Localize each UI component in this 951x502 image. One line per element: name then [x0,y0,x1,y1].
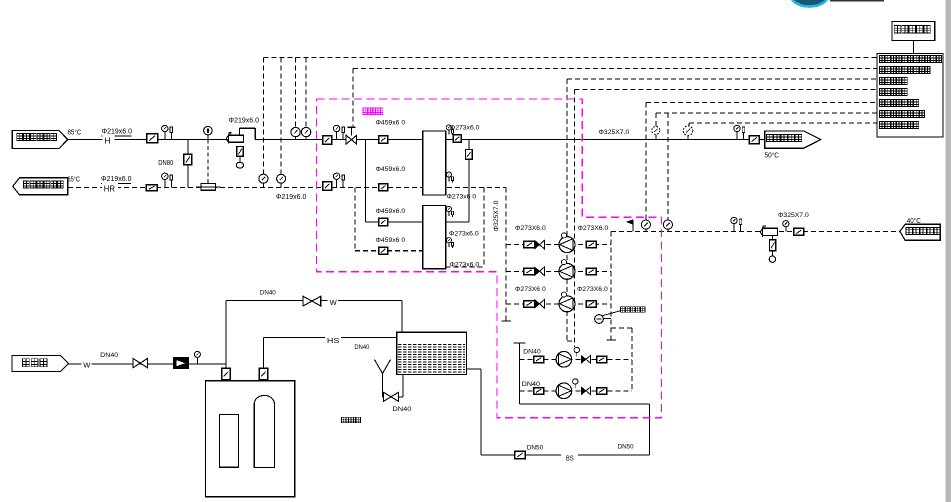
wire: makeup row 1 dashed [520,358,633,360]
softener brine tank [220,415,239,468]
wire: pump row 3 dashed [506,303,611,305]
valve V21 makeup inlet [534,356,544,362]
gauge P2 primary supply [301,127,310,136]
svg-text:Φ273x6.0: Φ273x6.0 [449,231,479,238]
label ctrl row 3 循环泵变频 [880,78,885,85]
label 二级网供水 [767,134,773,141]
drain circle M2 [769,256,775,262]
wire: HX2 secondary outlet [446,221,469,223]
valve V9 HX2 supply [379,218,388,225]
gauge P7 tap [194,351,200,357]
sensor S3 softener right [259,368,267,379]
signal row3 wire [567,78,877,80]
valve V1 supply [147,134,158,143]
svg-text:DN50: DN50 [527,444,544,451]
valve V20 secondary return [794,228,804,235]
valve V26 W line [303,296,321,306]
wire: HX2 supply branch [365,221,423,223]
wire: HS line [264,336,397,338]
node: secondary supply arrow 50C [765,131,821,148]
wire: compensator drop [913,40,915,53]
svg-text:Φ325X7.0: Φ325X7.0 [493,200,500,231]
thermo T1 supply [164,132,166,140]
svg-text:DN40: DN40 [523,349,541,356]
flow meter M2 return [761,229,763,235]
svg-text:85°C: 85°C [68,128,82,137]
valve V4 under meter [237,147,244,157]
thermo T8 secondary supply [736,132,738,140]
valve V27 drain [384,392,399,401]
valve V2 return [146,185,157,191]
thermo T10 secondary return [733,224,735,232]
svg-text:Φ459x6.0: Φ459x6.0 [376,166,406,173]
svg-text:HS: HS [327,336,340,345]
softener cabinet [206,381,295,497]
hx thermo HX2 bottom right [446,238,451,243]
wire: pump suction manifold dashed [505,187,507,321]
valve V19 under meter [770,240,776,251]
wire: drain stem [239,156,241,162]
check valve CK1 [535,240,540,248]
wire: BS bottom run [481,454,649,456]
relief solenoid valve [595,315,604,324]
svg-text:DN80: DN80 [158,160,173,167]
svg-text:HR: HR [104,184,115,194]
pump MP1 makeup [556,352,572,368]
signal row7 wire [689,122,877,124]
valve V17 pump row 3 outlet [586,301,596,308]
label 换热机组 magenta [363,108,368,115]
valve V3 DN80 bypass [184,154,192,165]
heat exchanger HX1 [423,131,446,195]
wire: secondary return dashed [611,231,900,233]
wire: BS riser right [648,404,650,455]
drain circle [236,162,243,168]
gauge P4 secondary supply [683,126,693,136]
label ctrl row 5 二级网回水压力 [880,100,885,107]
svg-text:Φ459x6.0: Φ459x6.0 [376,208,406,215]
valve V5 supply [323,136,332,144]
wire: tank drain [402,374,404,396]
check valve CK2 [535,267,540,275]
control valve CV1 electric [346,135,357,144]
softener resin tank [254,395,274,467]
label ctrl row 1 一级网供回水温度、压力 [880,56,885,63]
wire: primary supply main line H [68,139,228,141]
wire: tap water line [68,363,226,365]
valve V6 return [323,182,332,190]
svg-text:40°C: 40°C [907,217,921,225]
svg-text:DN40: DN40 [100,352,118,359]
signal row6 wire [656,112,877,114]
thermo T6 return [336,180,338,188]
hx thermo HX1 bottom right [446,172,451,177]
magenta package boundary [317,99,662,418]
svg-text:DN40: DN40 [354,344,369,351]
wire: tank outlet [467,368,481,370]
label ctrl row 4 补水泵控制 [880,89,885,96]
valve V22 makeup outlet [597,356,607,362]
wire: meter jog over [239,128,241,135]
svg-text:Φ273X6 0: Φ273X6 0 [515,286,546,293]
gauge MP2 [573,379,578,384]
svg-text:Φ219x6.0: Φ219x6.0 [229,118,260,125]
svg-text:Φ219x6.0: Φ219x6.0 [276,194,307,201]
valve V8 HX1 return [379,184,388,191]
signal row1 drops [262,57,264,174]
weather compensator box [892,22,935,41]
node: secondary return arrow 40C [900,224,940,240]
svg-text:50°C: 50°C [765,151,780,160]
valve V23 makeup inlet [534,388,544,394]
svg-text:H: H [105,136,111,146]
valve V28 tap [133,358,148,367]
valve V14 pump row 2 inlet [524,268,535,275]
signal row5 wire [646,102,877,104]
gauge P5 secondary return [641,220,650,229]
label 自来水 [23,359,30,367]
wire: HX1 bottom to suction header dashed [447,186,506,188]
hx thermo HX1 top right [446,125,451,130]
wire: BS horizontal top [520,403,650,405]
svg-text:W: W [83,361,91,370]
pipe cap return manifold [606,339,616,341]
check valve CK3 [535,300,540,308]
node: primary supply arrow 85C [12,131,68,149]
valve V13 pump row 1 outlet [586,241,596,248]
wire: W fill line [226,300,402,302]
wire: M2 drain stem [771,236,773,240]
check valve MCK2 [581,387,586,395]
valve V25 BS line [515,451,525,458]
valve V16 pump row 3 inlet [524,301,535,308]
hx thermo HX2 top right [446,206,451,211]
svg-text:Φ273x6.0: Φ273x6.0 [450,262,480,269]
wire: pump row 1 dashed [506,244,611,246]
sensor S1 on riser [466,150,473,160]
pump P3 circulating [559,296,575,312]
svg-text:Φ273X6.0: Φ273X6.0 [577,286,608,293]
svg-text:Φ273x6.0: Φ273x6.0 [450,124,480,131]
wire: makeup row 2 dashed [520,390,633,392]
wire: return manifold vertical dashed [354,187,356,250]
gauge T9 secondary return [663,220,672,229]
label ctrl row 6 二级网供回水温度 [880,111,885,118]
wire: makeup manifold [519,343,521,404]
svg-text:Φ273x6 0: Φ273x6 0 [447,194,477,201]
heat exchanger HX2 [423,206,446,269]
svg-text:DN50: DN50 [618,444,634,451]
svg-text:DN40: DN40 [392,406,411,413]
label 气候补偿器 [894,26,900,33]
thermo T2 return [164,180,166,188]
top dark banner bar [830,0,884,2]
pump P1 circulating [559,237,575,253]
valve V18 secondary supply [749,136,759,144]
svg-text:Φ325X7.0: Φ325X7.0 [599,129,630,136]
valve V15 pump row 2 outlet [586,268,596,275]
label HS [325,333,341,343]
signal row2 wire [353,67,877,69]
valve V7 HX1 supply [379,136,388,143]
svg-text:Φ273X6.0: Φ273X6.0 [515,225,546,232]
svg-text:Φ219x6.0: Φ219x6.0 [101,176,132,183]
sensor S2 softener left [222,368,230,379]
gauge T4 primary return [259,174,268,183]
svg-text:DN40: DN40 [522,381,541,388]
label H [103,135,115,144]
wire: return manifold dashed [610,232,612,341]
signal row4 wire [575,89,878,91]
wire: HX2 bottom dashed [446,266,485,268]
signal row1 wire [263,56,877,58]
svg-text:BS: BS [566,456,574,463]
funnel drain [375,360,383,374]
flow meter M1 primary [227,136,229,142]
gauge P6 return [783,221,789,227]
pump MP2 makeup [556,383,572,399]
node: tap water arrow [12,355,68,371]
node: primary return arrow 65C [13,178,68,195]
wire: DN80 bypass [187,140,189,188]
valve V10 HX2 return [379,247,388,254]
svg-text:Φ325X7.0: Φ325X7.0 [778,212,809,219]
label W tap [82,360,92,369]
pump P2 circulating [559,263,575,279]
solenoid flag [632,220,634,232]
gauge T7 secondary supply [652,127,660,135]
thermo T5 supply [336,132,338,140]
teal logo ellipse [791,0,828,7]
gauge P3 primary return [277,174,286,183]
wire: softener stems [225,301,227,381]
water meter WM [174,358,189,368]
svg-text:Φ459x6 0: Φ459x6 0 [376,237,406,244]
svg-text:Φ273X6.0: Φ273X6.0 [578,225,609,232]
label BS [561,452,578,462]
svg-text:Φ459x6 0: Φ459x6 0 [376,120,406,127]
wire: makeup branch dashed [611,327,632,329]
wire: tank drop [480,369,482,455]
gauge MP1 [574,347,579,352]
label 自一级网回水 [24,181,30,188]
valve V11 HX1 outlet [453,135,461,142]
label W fill [328,296,339,305]
svg-text:W: W [330,298,338,307]
wire: HX2 return branch dashed [355,250,423,252]
controller box [877,53,943,136]
label 引至明沟 [342,417,346,423]
label ctrl row 7 二级网供水压力 [880,122,885,129]
orifice meter on return [201,184,215,191]
signal row3-4 elbow [567,340,575,342]
label HR [102,183,118,193]
label 二级网回水 [906,227,912,234]
pipe cap suction manifold [501,320,511,322]
wire: supply manifold vertical [364,140,366,222]
svg-text:65°C: 65°C [68,174,81,183]
valve V24 makeup outlet [597,388,607,394]
valve V12 pump row 1 inlet [524,241,535,248]
wire: dp signal [207,140,209,184]
svg-text:Φ219x6.0: Φ219x6.0 [102,128,133,135]
water tank [397,332,467,374]
gauge T3 primary supply [291,127,300,136]
svg-text:DN40: DN40 [260,290,276,297]
label ctrl row 2 一次供水电动调节阀 [880,67,885,74]
wire: primary return main line HR [68,186,423,188]
label 泄压电磁阀 [621,307,625,312]
wire: pump row 2 dashed [506,270,611,272]
gauge P1 primary supply [204,126,213,135]
right gray scrollbar strip [946,0,951,502]
label 自一级网供水 [17,134,23,141]
check valve MCK1 [581,355,586,363]
pipe cap makeup manifold [514,342,526,344]
